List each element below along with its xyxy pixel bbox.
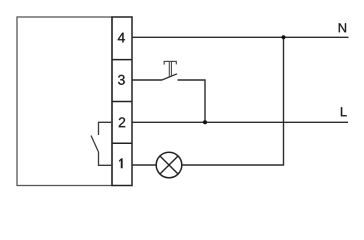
- terminal divider 3/2: [112, 101, 132, 103]
- push button actuator stem left: [168, 61, 170, 76]
- label L: [341, 107, 347, 116]
- wire terminal 2 to L: [132, 121, 348, 123]
- label N: [339, 23, 346, 32]
- lamp E circle: [156, 152, 182, 178]
- lamp E cross stroke 2: [160, 156, 178, 174]
- wire terminal 1 lead: [132, 164, 156, 166]
- terminal 4 label: [118, 33, 125, 43]
- junction lamp riser to N: [282, 35, 286, 39]
- wire lamp to N riser: [182, 37, 284, 165]
- push button actuator stem right: [170, 61, 172, 75]
- device box: [17, 17, 112, 186]
- push button cap right tick: [175, 61, 177, 64]
- wire relay contact top lead: [99, 122, 113, 135]
- terminal block outline: [112, 17, 132, 186]
- push button cap left tick: [163, 61, 165, 64]
- lamp E cross stroke 1: [160, 156, 178, 174]
- wire terminal 4 to N: [132, 36, 349, 38]
- relay contact movable arm: [91, 136, 99, 153]
- junction push button to L: [203, 120, 207, 124]
- terminal 2 label: [119, 117, 125, 127]
- terminal divider 2/1: [112, 142, 132, 144]
- terminal 3 label: [118, 75, 125, 85]
- wire relay contact bottom lead: [99, 152, 113, 165]
- terminal divider 4/3: [112, 59, 132, 61]
- push button cap bar: [164, 60, 177, 62]
- push button S movable contact: [162, 74, 177, 80]
- terminal 1 label: [119, 158, 122, 168]
- wire push button right lead: [178, 80, 206, 122]
- wire terminal 3 lead: [132, 79, 162, 81]
